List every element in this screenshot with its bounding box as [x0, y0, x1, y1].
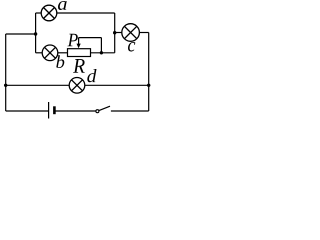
lamp d	[69, 78, 85, 94]
wire lamp a left lead	[36, 12, 42, 14]
wire slider top horizontal	[79, 37, 102, 39]
node junction dot at resistor right	[100, 51, 103, 54]
lamp c	[122, 24, 140, 42]
label b	[56, 55, 64, 68]
wire top rail from lamp a to right vertical	[57, 12, 115, 14]
wire horizontal to left rail	[6, 33, 36, 35]
wire lamp b to resistor R	[58, 52, 68, 54]
wire lamp c left lead	[115, 32, 122, 34]
battery short plate	[53, 106, 56, 114]
wire resistor right lead	[91, 52, 115, 54]
resistor R (rheostat body)	[68, 49, 91, 57]
wire bottom rail left segment	[6, 110, 48, 112]
wire right upper vertical (top rail down)	[114, 13, 116, 53]
lamp b	[42, 45, 58, 61]
wire left vertical from lamp a down to lamp b	[35, 13, 37, 53]
wire bottom rail middle segment	[54, 110, 96, 112]
wire right rail vertical	[148, 33, 150, 112]
node junction dot lamp c tie	[113, 31, 116, 34]
label c	[128, 42, 135, 52]
battery long plate	[48, 102, 50, 119]
switch lever	[99, 106, 110, 110]
label R	[73, 59, 85, 73]
wire left rail vertical	[5, 34, 7, 111]
node junction dot left rail (lamp d branch)	[4, 84, 7, 87]
wire bottom rail right segment	[111, 110, 149, 112]
label P	[68, 34, 78, 47]
label d	[87, 69, 96, 82]
label a	[58, 1, 67, 10]
lamp a	[41, 5, 57, 21]
wire lamp b lead	[36, 52, 43, 54]
wire lamp d right lead	[85, 84, 149, 86]
switch pivot	[96, 110, 99, 113]
wire lamp d left lead	[6, 84, 69, 86]
slider arrow of rheostat	[77, 38, 81, 49]
node junction dot right rail (lamp d branch)	[147, 84, 150, 87]
wire lamp c right lead	[139, 32, 148, 34]
wire slider loop vertical	[100, 38, 102, 53]
node junction dot left (a/b tie)	[34, 32, 37, 35]
